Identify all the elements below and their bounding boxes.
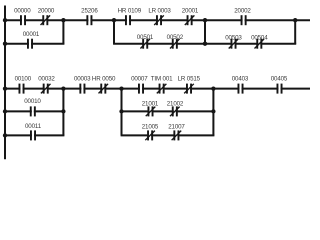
contact 20001 (NC) — [185, 15, 195, 25]
wire vertical at node A (x63) — [62, 20, 64, 44]
wire vertical at node F (x121) — [121, 89, 123, 136]
contact 00011 (NO) — [30, 130, 36, 140]
svg-text:00502: 00502 — [167, 34, 184, 41]
contact LR 0515 (NC) — [184, 84, 194, 94]
contact 00405 (NO) — [277, 84, 283, 94]
svg-text:HR 0109: HR 0109 — [118, 7, 142, 14]
label 00032 — [38, 75, 55, 82]
junction node D on rung1 — [293, 18, 297, 22]
label 21007 — [168, 124, 185, 131]
contact HR 0109 (NO) — [125, 15, 131, 25]
svg-text:00403: 00403 — [232, 75, 249, 82]
label 00502 — [167, 34, 184, 41]
label LR 0003 — [148, 7, 171, 14]
junction rail x branch2b — [3, 133, 7, 137]
contact 21007 (NC) — [172, 130, 182, 140]
contact 00032 (NC) — [41, 84, 51, 94]
junction node C on branch1b — [203, 42, 207, 46]
contact 00501 (NC) — [140, 39, 150, 49]
svg-text:00001: 00001 — [23, 31, 40, 38]
junction node E on branch2a — [61, 109, 65, 113]
label 00403 — [232, 75, 249, 82]
label 00000 — [14, 7, 31, 14]
contact 00003 (NO) — [79, 84, 85, 94]
svg-text:LR 0003: LR 0003 — [148, 7, 171, 14]
junction node F on rung2 — [119, 86, 123, 90]
svg-text:00000: 00000 — [14, 7, 31, 14]
label 00100 — [15, 75, 32, 82]
junction node G on branch3a — [211, 109, 215, 113]
label 00504 — [251, 34, 268, 41]
svg-text:HR 0050: HR 0050 — [92, 75, 116, 82]
label 20000 — [38, 7, 55, 14]
wire vertical at node C (x205) — [204, 20, 206, 44]
svg-text:00504: 00504 — [251, 34, 268, 41]
junction rail x rung1 — [3, 18, 7, 22]
contact 21001 (NC) — [146, 106, 156, 116]
label HR 0050 — [92, 75, 116, 82]
wire rung 2 — [5, 88, 310, 90]
label TIM 001 — [151, 75, 173, 82]
label 00003 — [74, 75, 91, 82]
junction node A on rung1 — [61, 18, 65, 22]
junction node F on branch3a — [119, 109, 123, 113]
label 20001 — [182, 7, 199, 14]
contact 25206 (NO) — [86, 15, 92, 25]
svg-text:21005: 21005 — [142, 124, 159, 131]
svg-text:00503: 00503 — [225, 34, 242, 41]
label 00011 — [25, 123, 42, 130]
wire branch 2a (00010) — [5, 110, 64, 112]
wire vertical at node G (x213) — [212, 89, 214, 136]
contact 00001 (NO) — [27, 39, 33, 49]
svg-text:00011: 00011 — [25, 123, 42, 130]
contact 00000 (NO) — [20, 15, 26, 25]
contact 21005 (NC) — [145, 130, 155, 140]
wire branch 2b (00011) — [5, 134, 64, 136]
svg-text:20002: 20002 — [234, 7, 251, 14]
wire branch 3a (21001-21002) — [121, 110, 215, 112]
label 21001 — [142, 100, 159, 107]
svg-text:TIM 001: TIM 001 — [151, 75, 173, 82]
junction node G on rung2 — [211, 86, 215, 90]
svg-text:25206: 25206 — [81, 7, 98, 14]
label 00001 — [23, 31, 40, 38]
contact 21002 (NC) — [170, 106, 180, 116]
junction node B on rung1 — [112, 18, 116, 22]
contact 00502 (NC) — [170, 39, 180, 49]
wire vertical at node B (x114) — [113, 20, 115, 44]
contact 20002 (NO) — [241, 15, 247, 25]
label HR 0109 — [118, 7, 142, 14]
svg-text:00501: 00501 — [137, 34, 154, 41]
svg-text:00405: 00405 — [271, 75, 288, 82]
label 21005 — [142, 124, 159, 131]
label 00007 — [131, 75, 148, 82]
contact LR 0003 (NC) — [154, 15, 164, 25]
wire rung 1 — [5, 19, 310, 21]
svg-text:00032: 00032 — [38, 75, 55, 82]
svg-text:21001: 21001 — [142, 100, 159, 107]
svg-text:LR 0515: LR 0515 — [178, 75, 201, 82]
label 00405 — [271, 75, 288, 82]
svg-text:00100: 00100 — [15, 75, 32, 82]
svg-text:21007: 21007 — [168, 124, 185, 131]
wire vertical at node D (x295) — [294, 20, 296, 44]
label 00501 — [137, 34, 154, 41]
contact HR 0050 (NC) — [99, 84, 109, 94]
wire vertical at node E (x63 lower) — [62, 89, 64, 136]
svg-text:20000: 20000 — [38, 7, 55, 14]
label 00503 — [225, 34, 242, 41]
junction rail x branch2a — [3, 109, 7, 113]
label 20002 — [234, 7, 251, 14]
junction node C on rung1 — [203, 18, 207, 22]
svg-text:00003: 00003 — [74, 75, 91, 82]
label LR 0515 — [178, 75, 201, 82]
label 25206 — [81, 7, 98, 14]
left power rail — [4, 6, 6, 160]
junction rail x branch1a — [3, 42, 7, 46]
label 21002 — [167, 100, 184, 107]
junction rail x rung2 — [3, 86, 7, 90]
contact 00010 (NO) — [30, 106, 36, 116]
contact 00100 (NO) — [19, 84, 25, 94]
contact 00503 (NC) — [229, 39, 239, 49]
contact 20000 (NC) — [41, 15, 51, 25]
contact 00403 (NO) — [238, 84, 244, 94]
wire branch 1b (00501-00504) — [113, 43, 296, 45]
svg-text:20001: 20001 — [182, 7, 199, 14]
contact 00504 (NC) — [255, 39, 265, 49]
svg-text:00007: 00007 — [131, 75, 148, 82]
contact 00007 (NO) — [138, 84, 144, 94]
wire branch 3b (21005-21007) — [121, 134, 215, 136]
svg-text:21002: 21002 — [167, 100, 184, 107]
junction node E on rung2 — [61, 86, 65, 90]
svg-text:00010: 00010 — [24, 98, 41, 105]
label 00010 — [24, 98, 41, 105]
wire branch 1a (00001) — [5, 43, 64, 45]
contact TIM 001 (NC) — [157, 84, 167, 94]
